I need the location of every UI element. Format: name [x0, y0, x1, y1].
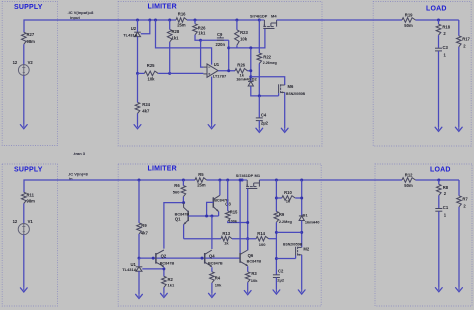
wire C9 net to output [228, 40, 230, 71]
resistor R2 [162, 276, 167, 293]
transistor Q3 BC847B [213, 195, 220, 211]
value D2 1N4148 [236, 78, 251, 82]
value 2 (R8) [444, 191, 447, 196]
value 4k7 [142, 109, 150, 114]
resistor R1 2.2Meg [274, 212, 279, 223]
wire V1 to ground [23, 235, 25, 288]
value 1k1 [168, 282, 175, 287]
wire R14 right [269, 238, 277, 240]
resistor R15 [225, 180, 247, 223]
label R2 [168, 277, 174, 282]
wire V2 to ground [23, 75, 25, 124]
wire C4 wire [258, 96, 260, 118]
transistor Q4 BC847B [205, 250, 212, 267]
diode D1 [299, 216, 305, 221]
wire R12 to R8 node [416, 179, 460, 181]
node M2 gate C2 [275, 257, 278, 260]
svg-text:Q1: Q1 [175, 216, 181, 221]
node U2 cathode [136, 19, 139, 22]
wire D1 to M2 drain [301, 221, 303, 248]
label Q6 [248, 253, 254, 258]
svg-text:M1: M1 [255, 173, 261, 178]
section box LOAD (top) [373, 2, 471, 147]
section box LIMITER (top) [118, 2, 322, 147]
svg-text:Si7461DP: Si7461DP [236, 174, 254, 178]
wire opamp gnd pin [211, 77, 213, 125]
svg-text:LOAD: LOAD [426, 5, 447, 12]
mosfet M1 Si7461DP [242, 180, 259, 189]
node Q2 emitter ref [162, 267, 165, 270]
resistor R6 [181, 180, 186, 203]
wire M4 to load [277, 19, 402, 21]
svg-text:220n: 220n [216, 42, 226, 47]
wire gate net [229, 29, 265, 48]
svg-text:1k: 1k [224, 241, 229, 246]
svg-text:R13: R13 [222, 231, 230, 236]
wire Q2 collector [164, 203, 184, 249]
svg-text:R10: R10 [284, 190, 292, 195]
label TL431A (bottom) [122, 267, 137, 272]
value D1 1N4148 [305, 221, 320, 225]
label R25 [147, 63, 155, 68]
section box LOAD (bottom) [375, 164, 472, 306]
svg-text:R27: R27 [27, 32, 35, 37]
node C4 top [258, 94, 261, 97]
svg-text:SUPPLY: SUPPLY [14, 167, 43, 174]
value 2 (R7) [463, 204, 466, 209]
value 100k [229, 220, 238, 224]
resistor R17 [457, 20, 462, 127]
svg-text:R19: R19 [405, 12, 413, 17]
resistor R19 [402, 18, 416, 23]
value 50m [404, 23, 413, 28]
label V1 value [13, 219, 18, 224]
wire M2 source to gnd [301, 255, 303, 290]
svg-text:C3: C3 [443, 45, 449, 50]
wire Q6 base from rail [239, 180, 241, 253]
label R23 [240, 30, 248, 35]
wire R27 to V2 [23, 44, 25, 64]
wire M1 gate chain [247, 189, 249, 251]
svg-text:R25: R25 [147, 63, 155, 68]
wire D1 bottom rail [276, 231, 301, 233]
label R20 [237, 62, 245, 67]
svg-text:50m: 50m [404, 23, 413, 28]
wire Q3 emitter down [218, 212, 220, 216]
resistor R27 [22, 32, 27, 44]
svg-text:BC847B: BC847B [208, 261, 223, 265]
wire R5 to M1 [207, 179, 243, 181]
value 2u2 [261, 121, 269, 126]
wire base rail [139, 257, 240, 259]
title SUPPLY (bottom) [14, 167, 43, 174]
svg-text:10k: 10k [215, 283, 222, 288]
value 10k [148, 77, 156, 82]
svg-text:R14: R14 [257, 231, 265, 236]
wire R16 to M4 [187, 19, 259, 21]
wire M2 gate rail [276, 256, 295, 259]
node opamp out [227, 69, 230, 72]
node U2 anode R25 [136, 72, 139, 75]
svg-text:Q6: Q6 [248, 253, 254, 258]
node Q2 base [152, 257, 155, 260]
capacitor C4 [256, 118, 263, 121]
svg-text:12: 12 [13, 219, 18, 224]
wire Q2 emitter node [163, 267, 165, 276]
node M6 drain branch [249, 75, 252, 78]
section box SUPPLY (bottom) [2, 164, 57, 306]
label U1 (bottom) [131, 262, 137, 267]
mosfet M6 BSN20 [279, 84, 285, 93]
svg-text:16mH40: 16mH40 [236, 78, 251, 82]
label R27 [27, 32, 35, 37]
node M4 source [258, 19, 261, 22]
value 10k [240, 37, 248, 42]
node U2 ref [148, 19, 151, 22]
wire main rail left (top) [138, 19, 177, 21]
label M4 [271, 14, 277, 19]
svg-text:16mH40: 16mH40 [305, 221, 320, 225]
ground supply (bottom) [20, 288, 27, 292]
node Q3 base join [205, 215, 208, 218]
value 98m [27, 39, 36, 44]
svg-text:R12: R12 [405, 173, 413, 178]
wire main rail left (bottom) [139, 179, 195, 181]
value 1k [224, 241, 229, 246]
value 1 [444, 52, 447, 57]
node gate R15 join [246, 221, 249, 224]
wire Q3 base down [207, 202, 214, 216]
wire R1 chain [275, 180, 277, 212]
resistor R26 [193, 20, 201, 40]
label R19 [405, 12, 413, 17]
ground R3 [244, 291, 251, 295]
svg-text:25m: 25m [177, 23, 186, 28]
label R6 [174, 183, 180, 188]
resistor R20 [235, 69, 251, 74]
svg-text:2.26meg: 2.26meg [263, 61, 277, 65]
wire supply to rail (bottom) [24, 180, 139, 192]
label M6 [288, 84, 294, 89]
svg-text:100: 100 [259, 242, 266, 247]
svg-text:R28: R28 [172, 29, 180, 34]
wire M6 source to gnd [284, 92, 286, 128]
svg-text:Q2: Q2 [161, 253, 167, 258]
label R10 [284, 190, 292, 195]
wire D2 to gate rail [251, 86, 279, 96]
resistor R28 [167, 20, 172, 73]
value 2u2 (C2) [277, 277, 285, 282]
node R9 top [138, 179, 141, 182]
wire U1b anode [138, 271, 140, 294]
svg-text:R9: R9 [279, 212, 285, 217]
wire C3 to gnd [438, 51, 440, 127]
label LT1787 [213, 73, 227, 78]
ground M2 [298, 290, 305, 294]
wire Q1 emitter to R13 [184, 238, 221, 240]
wire supply to rail (top) [24, 20, 138, 32]
wire R25 right stub [158, 72, 170, 74]
label Q1 [175, 216, 181, 221]
value 220n [216, 42, 226, 47]
svg-text:R8: R8 [443, 185, 449, 190]
label R13 [222, 231, 230, 236]
svg-text:1k1: 1k1 [198, 31, 206, 36]
resistor R16 [176, 18, 187, 23]
svg-text:Si7461DP: Si7461DP [250, 15, 268, 19]
capacitor C9 [217, 36, 224, 40]
directive .IC V(input)=8 [68, 10, 95, 15]
label C1 [443, 205, 449, 210]
label D1 [303, 213, 309, 218]
wire U1b ref pin [142, 268, 164, 270]
label M2 [303, 247, 309, 252]
label BC847B (Q1) [175, 213, 190, 217]
node D1 bottom rail [275, 231, 278, 234]
wire M6 drain [251, 77, 285, 85]
node gate R13 R14 join [246, 237, 249, 240]
label BC847B (Q2) [160, 261, 175, 265]
svg-text:R23: R23 [240, 30, 248, 35]
svg-text:10k: 10k [251, 278, 258, 283]
label TL431A [123, 33, 138, 38]
mosfet M4 Si7461DP [259, 20, 276, 29]
value 1 (C1) [444, 213, 447, 218]
svg-text:C1: C1 [443, 205, 449, 210]
wire Q1 base rail [188, 215, 218, 217]
resistor R22 [257, 20, 262, 96]
wire Q1 emitter [183, 225, 185, 239]
svg-text:M4: M4 [271, 14, 277, 19]
svg-text:R26: R26 [198, 25, 206, 30]
node Q1 collector [182, 201, 185, 204]
label BSN20 value [286, 92, 306, 96]
wire minus-input [201, 40, 204, 67]
wire R13 to R14 [232, 238, 256, 240]
wire R11 to V1 [23, 204, 25, 224]
svg-text:M2: M2 [303, 247, 309, 252]
wire R1 to C2 [275, 222, 277, 274]
value 25m [197, 182, 206, 187]
label Q3 [225, 201, 231, 206]
value 2.2Meg [279, 220, 293, 224]
svg-text:4k7: 4k7 [142, 109, 150, 114]
ground M6 (top) [281, 128, 288, 132]
title LIMITER (top) [148, 3, 177, 10]
node R10 left [275, 197, 278, 200]
node D1 top [300, 179, 303, 182]
wire D1 top [301, 180, 303, 216]
node R26 top [194, 19, 197, 22]
svg-text:R9: R9 [141, 223, 147, 228]
wire Q3 collector [219, 180, 221, 195]
label V2 value [13, 60, 18, 65]
svg-text:LT1787: LT1787 [213, 73, 227, 78]
label R17 [462, 36, 470, 41]
svg-text:R24: R24 [142, 102, 150, 107]
svg-text:Q4: Q4 [209, 253, 215, 258]
svg-text:BSN20050B: BSN20050B [283, 243, 303, 247]
title LIMITER (bottom) [148, 166, 177, 173]
svg-text:R5: R5 [198, 172, 204, 177]
label Q2 [161, 253, 167, 258]
wire Q4 emitter [211, 267, 213, 272]
capacitor C1 [435, 209, 442, 212]
wire opamp V+ feed [156, 20, 212, 65]
label R7 [462, 197, 468, 202]
value 100 [259, 242, 266, 247]
value 98m [27, 199, 36, 204]
wire rail to U2 [137, 20, 139, 32]
resistor R5 [195, 178, 207, 183]
svg-text:R17: R17 [462, 36, 470, 41]
svg-text:R26: R26 [237, 62, 245, 67]
node R18 top [437, 19, 440, 22]
label R14 [257, 231, 265, 236]
svg-text:M6: M6 [288, 84, 294, 89]
label R8 [443, 185, 449, 190]
wire M6 gate pin [278, 93, 280, 96]
label C4 [261, 113, 267, 118]
label R26 [198, 25, 206, 30]
svg-text:BC847B: BC847B [247, 260, 262, 264]
node Q6 base top [239, 179, 242, 182]
ground R17 (top) [455, 127, 462, 131]
node opamp V+ drop [154, 19, 157, 22]
wire U1b cathode [138, 258, 140, 267]
voltage source V2 [18, 65, 29, 76]
svg-text:C4: C4 [261, 113, 267, 118]
section box LIMITER (bottom) [118, 164, 321, 306]
svg-text:input: input [70, 15, 80, 20]
value 1k1 [172, 35, 180, 40]
net label in [69, 176, 73, 181]
svg-text:2.2Meg: 2.2Meg [279, 220, 293, 224]
resistor R8 [437, 180, 442, 208]
node R28 top [168, 19, 171, 22]
svg-text:2µ2: 2µ2 [277, 277, 285, 282]
svg-text:1k1: 1k1 [172, 35, 180, 40]
label BSN20 value (M2) [283, 243, 303, 247]
ground C4 (top) [256, 128, 263, 132]
svg-text:1k: 1k [286, 199, 291, 204]
node Q4 base [201, 257, 204, 260]
node R20 right [249, 69, 252, 72]
value 560 [173, 189, 180, 194]
label C9 [217, 32, 223, 37]
node R15 top [226, 179, 229, 182]
value 2.26meg [263, 61, 277, 65]
svg-text:10k: 10k [148, 77, 156, 82]
svg-text:TL431A: TL431A [122, 267, 137, 272]
svg-text:100k: 100k [229, 220, 238, 224]
label V1 [28, 219, 34, 224]
ground R24 (top) [134, 125, 141, 129]
svg-text:4k7: 4k7 [141, 230, 149, 235]
node Q3 collector top [218, 179, 221, 182]
node base rail left [138, 257, 141, 260]
wire opamp out [218, 70, 235, 72]
wire U2 anode down [137, 37, 139, 74]
svg-text:R3: R3 [251, 271, 257, 276]
ground R4 [209, 293, 216, 297]
node R8 top [437, 179, 440, 182]
label R15 [230, 210, 238, 215]
wire C4 to gnd [258, 121, 260, 129]
ground opamp (top) [208, 125, 215, 129]
svg-text:U1: U1 [214, 62, 220, 67]
label R18 [442, 25, 450, 30]
label Si7461DP (M1) [236, 174, 254, 178]
value 2 [463, 43, 466, 48]
wire Q6 emitter [247, 266, 249, 272]
transistor Q1 BC847B (mirrored) [184, 203, 189, 225]
svg-text:98m: 98m [27, 39, 36, 44]
node C9 net [199, 39, 202, 42]
svg-text:BSN20050B: BSN20050B [286, 92, 306, 96]
directive .IC V(in)=8 [68, 171, 88, 176]
label R16 [178, 11, 186, 16]
resistor R13 [221, 236, 232, 241]
svg-text:50m: 50m [404, 183, 413, 188]
svg-text:R16: R16 [178, 11, 186, 16]
value 1k (R10) [286, 199, 291, 204]
resistor R25 [144, 71, 158, 76]
svg-text:R2: R2 [168, 277, 174, 282]
node R6 top [182, 179, 185, 182]
mosfet M2 BSN20 [296, 247, 302, 256]
label R28 [172, 29, 180, 34]
net label input [70, 15, 80, 20]
value 1k1 [198, 31, 206, 36]
wire C9 net [201, 39, 229, 41]
value 10k [215, 283, 222, 288]
label R3 [251, 271, 257, 276]
node R1 top [275, 179, 278, 182]
svg-text:R22: R22 [263, 54, 271, 59]
svg-text:LOAD: LOAD [430, 167, 451, 174]
wire gate chain [250, 48, 252, 82]
label R9 [141, 223, 147, 228]
value 10k [251, 278, 258, 283]
wire C2 to gnd [275, 278, 277, 290]
svg-text:98m: 98m [27, 199, 36, 204]
resistor R14 [256, 236, 268, 241]
wire C1 to gnd [438, 211, 440, 287]
value 1k [240, 73, 245, 78]
label R5 [198, 172, 204, 177]
resistor R9 [137, 180, 142, 258]
capacitor C2 [273, 275, 280, 278]
wire plus-input rail [170, 72, 204, 74]
title SUPPLY (top) [14, 4, 43, 11]
label Si7461DP [250, 15, 268, 19]
svg-text:R4: R4 [215, 276, 221, 281]
diode D2 [248, 81, 254, 86]
svg-text:LIMITER: LIMITER [148, 3, 177, 10]
wire Q4 collector [211, 216, 213, 249]
wire R25 left stub [138, 72, 145, 74]
wire U2 ref pin [141, 20, 150, 34]
ground supply (top) [20, 125, 27, 129]
voltage source V1 [18, 224, 29, 235]
label U1 [214, 62, 220, 67]
label C3 [443, 45, 449, 50]
title LOAD (top) [426, 5, 447, 12]
label BC847B (Q4) [208, 261, 223, 265]
capacitor C3 [435, 48, 442, 51]
shunt regulator U1 TL431A (bottom) [136, 267, 143, 271]
